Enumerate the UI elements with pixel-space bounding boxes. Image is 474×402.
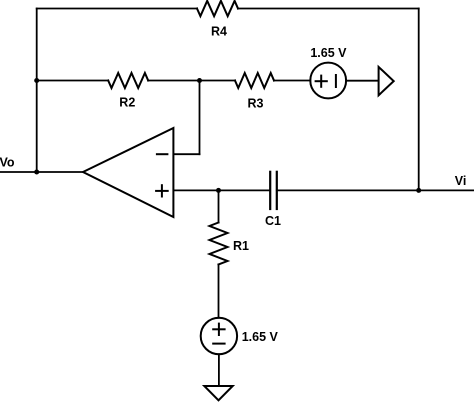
node junction Vo xyxy=(34,170,39,175)
svg-text:Vo: Vo xyxy=(0,156,15,170)
wire plus input to R1 xyxy=(218,190,220,222)
svg-text:C1: C1 xyxy=(265,214,281,228)
wire R1 to V1 xyxy=(218,265,220,318)
resistor R4 xyxy=(197,1,238,39)
wire node Vo xyxy=(0,171,83,173)
wire inverting input vertical xyxy=(199,81,201,155)
svg-text:R3: R3 xyxy=(248,97,264,111)
wire R2 left xyxy=(37,80,109,82)
wire right vertical xyxy=(418,9,420,191)
ground xyxy=(204,386,232,400)
wire left vertical xyxy=(36,9,38,173)
wire V1 to ground xyxy=(218,354,220,386)
resistor R3 xyxy=(235,73,274,111)
svg-text:Vi: Vi xyxy=(455,174,467,188)
svg-text:1.65 V: 1.65 V xyxy=(242,330,279,344)
wire top left segment xyxy=(37,8,197,10)
wire top right segment xyxy=(238,8,419,10)
resistor R1 xyxy=(210,223,250,265)
svg-text:R1: R1 xyxy=(233,239,249,253)
wire R2 to R3 xyxy=(148,80,235,82)
wire R3 to source V2 xyxy=(274,80,310,82)
wire non-inverting input xyxy=(173,189,270,191)
resistor R2 xyxy=(108,73,148,110)
op-amp U1 xyxy=(83,128,173,217)
wire V2 to net flag xyxy=(346,80,379,82)
node junction inverting xyxy=(197,78,202,83)
node junction Vi xyxy=(416,188,421,193)
svg-text:R2: R2 xyxy=(119,96,135,110)
wire node Vi xyxy=(277,189,474,191)
node junction R1 top xyxy=(216,188,221,193)
net flag xyxy=(379,67,394,95)
voltage source V1 1.65 V xyxy=(201,318,279,354)
voltage source V2 1.65 V xyxy=(310,46,347,98)
svg-text:R4: R4 xyxy=(211,24,227,38)
node junction R2 left xyxy=(34,78,39,83)
capacitor C1 xyxy=(265,172,281,228)
svg-text:1.65 V: 1.65 V xyxy=(310,46,347,60)
wire inverting input stub xyxy=(173,153,199,155)
